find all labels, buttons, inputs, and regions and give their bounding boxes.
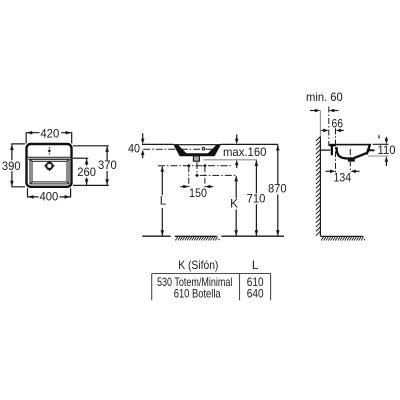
- table header K: [178, 258, 218, 272]
- dimension K: [230, 176, 238, 236]
- svg-text:260: 260: [77, 165, 96, 179]
- dimension 260: [73, 158, 96, 185]
- front floor hatch: [175, 237, 219, 241]
- svg-text:40: 40: [128, 142, 140, 156]
- svg-text:L: L: [160, 193, 167, 207]
- svg-text:66: 66: [332, 116, 344, 130]
- side centerline V2: [335, 128, 337, 172]
- dimension 370: [73, 146, 117, 186]
- side view counter line: [321, 149, 330, 151]
- svg-text:420: 420: [40, 127, 59, 141]
- side centerline V3: [349, 149, 351, 173]
- front view centerline: [143, 148, 212, 150]
- front view basin body: [173, 144, 221, 156]
- dimension min60: [306, 90, 343, 112]
- svg-text:400: 400: [40, 190, 59, 204]
- side view wall face: [319, 111, 321, 237]
- plan view deck edge double line: [28, 157, 71, 159]
- dimension 134: [326, 170, 360, 185]
- plan view basin rim: [30, 159, 69, 184]
- dimension 870: [268, 145, 287, 236]
- svg-text:150: 150: [189, 186, 207, 200]
- dimension 66: [321, 116, 344, 132]
- plan view drain symbol: [44, 161, 54, 171]
- table row 2: [174, 286, 264, 300]
- side view basin back wall: [331, 146, 333, 155]
- supply node right: [203, 164, 207, 168]
- drain centerline vertical: [196, 162, 198, 174]
- dimension max160: [223, 134, 267, 168]
- drain centerline horizontal: [200, 174, 237, 176]
- side view rim deck: [329, 144, 371, 147]
- plan view outer rim: [27, 144, 72, 187]
- front view counter line left: [142, 143, 173, 145]
- side view drain stub: [348, 158, 355, 162]
- svg-text:110: 110: [378, 143, 396, 157]
- side view front rim: [366, 144, 375, 154]
- svg-text:710: 710: [247, 191, 266, 205]
- dimension L: [160, 166, 167, 236]
- dimension 150: [181, 166, 214, 200]
- svg-text:610 Botella: 610 Botella: [174, 286, 221, 300]
- dimension 390: [2, 144, 25, 187]
- svg-text:370: 370: [98, 158, 117, 172]
- svg-text:870: 870: [268, 182, 287, 196]
- table box: [152, 274, 271, 301]
- plan view basin bottom: [30, 159, 69, 184]
- side view floor line: [320, 235, 363, 237]
- front view counter line right: [221, 143, 279, 145]
- plan view faucet hole: [48, 147, 51, 154]
- side view floor hatch: [321, 237, 365, 241]
- front floor line: [142, 235, 284, 237]
- dimension 420: [26, 127, 71, 144]
- svg-text:134: 134: [334, 170, 352, 184]
- counter underside line: [204, 159, 258, 161]
- table header L: [252, 258, 259, 272]
- svg-text:640: 640: [247, 286, 264, 300]
- svg-text:K: K: [230, 197, 238, 211]
- side view wall hatch: [316, 137, 320, 236]
- side view bowl profile: [336, 147, 369, 159]
- svg-text:max.160: max.160: [223, 145, 267, 159]
- svg-text:min. 60: min. 60: [306, 90, 343, 104]
- side centerline V1: [328, 107, 330, 147]
- table row 1: [157, 275, 264, 289]
- svg-text:L: L: [252, 258, 259, 272]
- supply node left: [187, 164, 191, 168]
- supply pipes centerline: [158, 165, 232, 167]
- front view drain stub: [193, 156, 199, 161]
- dimension 400: [28, 188, 71, 203]
- drain node: [195, 173, 199, 177]
- svg-text:390: 390: [2, 159, 21, 173]
- dimension 110: [368, 135, 396, 166]
- front view overflow hole: [202, 147, 205, 150]
- dimension 40: [128, 133, 145, 158]
- svg-text:K (Sifón): K (Sifón): [178, 258, 218, 272]
- dimension 710: [247, 160, 266, 236]
